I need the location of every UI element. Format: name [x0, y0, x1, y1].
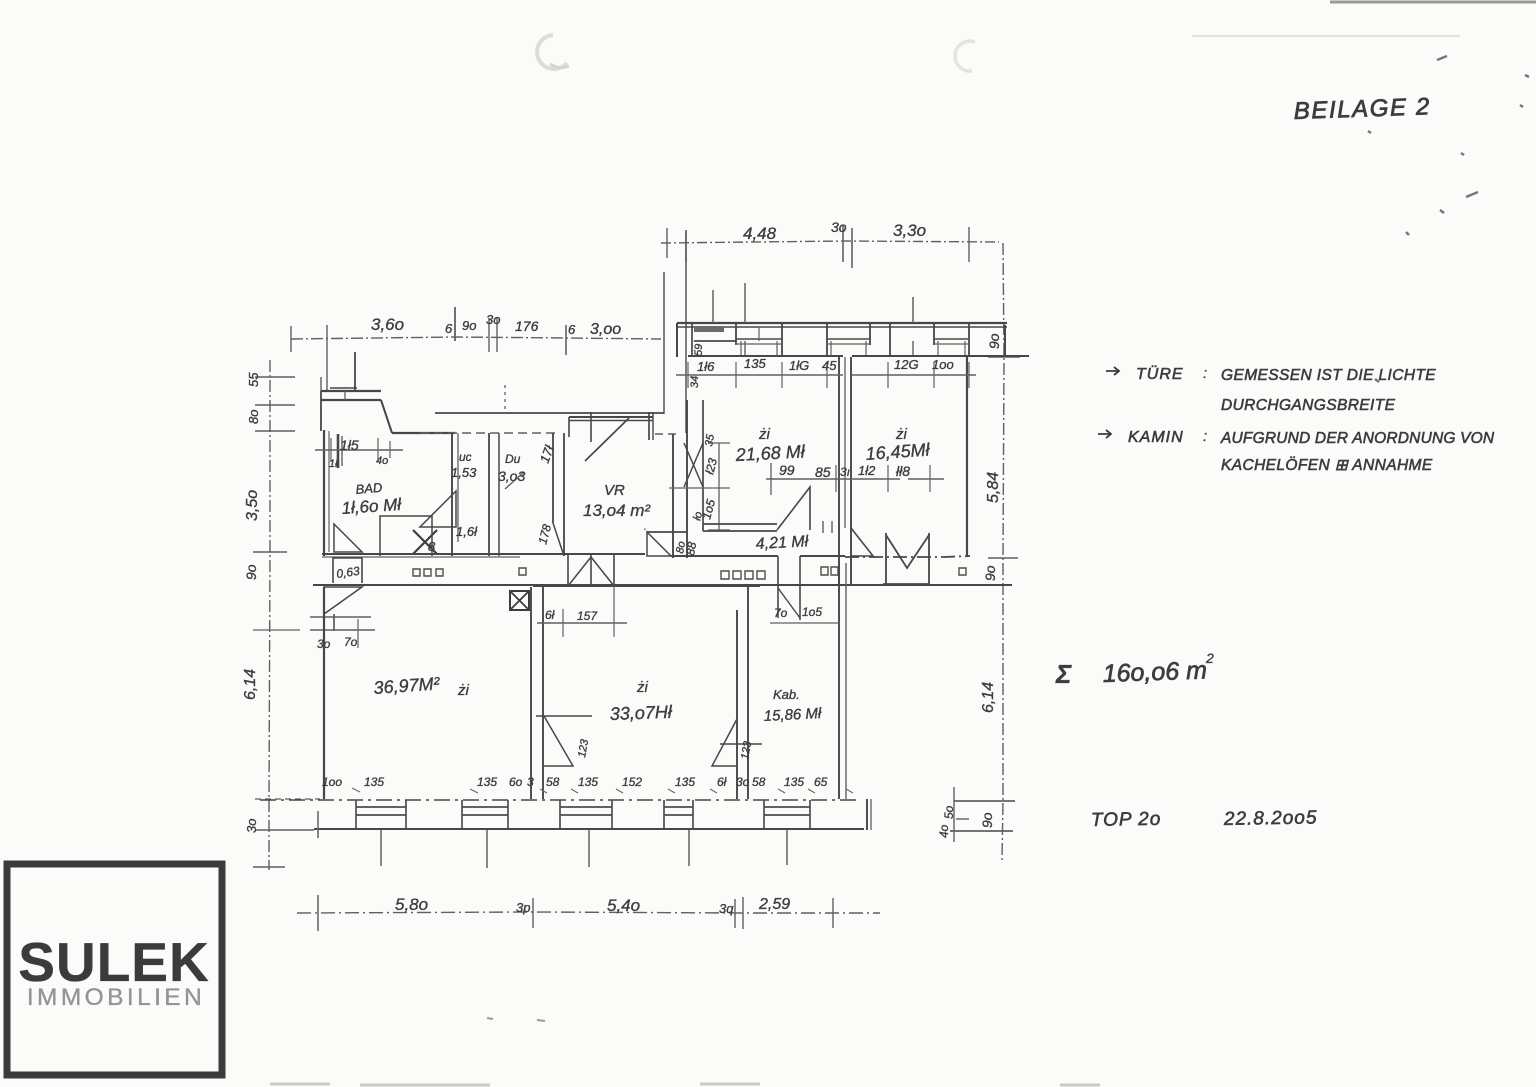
- svg-text:żi: żi: [758, 426, 771, 443]
- dim line under top wall windows: [676, 374, 843, 376]
- bottom dim line (5,80 / 30 / 5,40 / 39 / 2,59): [297, 912, 880, 913]
- specks top right corner: [1368, 56, 1529, 382]
- note arrow 2: [1098, 430, 1111, 438]
- svg-text:BEILAGE 2: BEILAGE 2: [1293, 93, 1431, 125]
- svg-text:1oo: 1oo: [322, 775, 342, 789]
- svg-text:59: 59: [693, 344, 705, 356]
- svg-text:IMMOBILIEN: IMMOBILIEN: [27, 984, 205, 1011]
- svg-text:135: 135: [578, 775, 598, 789]
- dim line upper-left (3,60 / 6 90 30 176 / 6 3,00): [291, 337, 661, 339]
- svg-text:3ı: 3ı: [840, 465, 850, 479]
- svg-text:5o: 5o: [942, 805, 956, 819]
- svg-text:7o: 7o: [344, 635, 358, 649]
- svg-text:AUFGRUND DER ANORDNUNG VON: AUFGRUND DER ANORDNUNG VON: [1220, 430, 1495, 447]
- svg-text:3q: 3q: [719, 901, 734, 916]
- svg-text:KAMIN: KAMIN: [1128, 429, 1184, 446]
- svg-text:157: 157: [577, 609, 598, 623]
- entrance door swing diagonal: [585, 418, 629, 461]
- svg-text:TÜRE: TÜRE: [1136, 365, 1184, 383]
- svg-text::: :: [1203, 428, 1207, 445]
- svg-text:Kab.: Kab.: [773, 687, 800, 702]
- svg-text:2: 2: [1205, 650, 1214, 666]
- svg-text:22.8.2oo5: 22.8.2oo5: [1223, 807, 1318, 830]
- svg-text:GEMESSEN IST DIE LICHTE: GEMESSEN IST DIE LICHTE: [1221, 367, 1436, 384]
- kamin X with 8 label near BAD: [413, 530, 437, 554]
- svg-text:8o: 8o: [674, 540, 688, 554]
- bottom edge scan smudges: [270, 1084, 1100, 1085]
- svg-text:3: 3: [527, 775, 534, 789]
- svg-text:4,21 Mł: 4,21 Mł: [755, 533, 809, 553]
- window mullion stubs in niches: [744, 341, 746, 356]
- BAD bath step rectangle: [380, 516, 432, 556]
- svg-text:3o: 3o: [736, 775, 750, 789]
- door corridor to Zi 21,68 swing: [777, 487, 810, 530]
- svg-text:1ł6: 1ł6: [697, 359, 715, 374]
- svg-text:1ł2: 1ł2: [858, 463, 876, 478]
- BAD door triangle: [420, 491, 456, 527]
- svg-text::: :: [1203, 365, 1207, 382]
- door corridor to Zi 16,45 swing: [851, 528, 873, 556]
- wall top exterior of Zi rooms (double): [677, 322, 1007, 324]
- svg-text:1o5: 1o5: [802, 605, 822, 619]
- scanner edge mark top right: [1330, 1, 1536, 4]
- bottom wall stubs below: [380, 830, 382, 866]
- inner dim row tick marks: [352, 788, 853, 793]
- window stubs above top wall: [744, 283, 746, 323]
- bottom window boxes: [356, 800, 406, 828]
- dashed overhead line above WC/DU/VR: [420, 432, 558, 434]
- wall BAD/WC divider: [451, 433, 453, 556]
- svg-text:135: 135: [364, 775, 384, 789]
- wall bottom lower rooms dashed: [260, 799, 856, 801]
- svg-text:3o: 3o: [831, 219, 847, 235]
- svg-text:Σ: Σ: [1055, 659, 1072, 689]
- svg-text:KACHELÖFEN ⊞ ANNAHME: KACHELÖFEN ⊞ ANNAHME: [1221, 456, 1433, 474]
- wall diagonal step top-left: [381, 400, 392, 433]
- svg-text:6: 6: [445, 321, 453, 336]
- svg-text:45: 45: [822, 358, 837, 373]
- right dim ticks: [988, 356, 1020, 358]
- svg-text:55: 55: [246, 372, 261, 387]
- svg-text:TOP 2o: TOP 2o: [1091, 809, 1162, 831]
- svg-text:3,3o: 3,3o: [893, 221, 926, 240]
- wall BAD top: [392, 432, 455, 434]
- niche 0,63 box: [333, 558, 362, 583]
- kamin box X symbol in 36,97: [510, 591, 529, 610]
- svg-text:Du: Du: [505, 452, 521, 466]
- svg-text:3,oo: 3,oo: [590, 321, 621, 338]
- svg-text:58: 58: [546, 775, 560, 789]
- punch hole right (faint arc): [955, 41, 975, 71]
- svg-text:1ł5: 1ł5: [340, 437, 359, 453]
- svg-text:9o: 9o: [979, 812, 995, 828]
- corridor 4,21 top wall (double): [703, 523, 777, 525]
- wall 33,07 / KAB (double): [736, 610, 738, 799]
- niche 0,63 door triangle above: [334, 524, 362, 552]
- svg-text:15,86 Mł: 15,86 Mł: [763, 705, 822, 725]
- dim line left vertical column: [269, 360, 270, 870]
- room 33,07 top wall: [533, 585, 760, 587]
- terrace edge line upper: [435, 412, 664, 414]
- small square in band single: [519, 568, 526, 575]
- svg-text:7o: 7o: [774, 606, 788, 620]
- top wall window dividers: [676, 323, 678, 357]
- door VR to Zi21,68 diagonal: [684, 443, 703, 487]
- small square in band right: [959, 568, 966, 575]
- top-right corner step: [1004, 325, 1006, 356]
- wall 36,97 / 33,07 (double): [530, 587, 532, 799]
- svg-text:VR: VR: [604, 482, 625, 499]
- row of small squares in band (3): [413, 569, 443, 576]
- svg-text:5,4o: 5,4o: [607, 896, 640, 915]
- svg-text:8o: 8o: [246, 410, 261, 424]
- svg-text:6o: 6o: [509, 775, 523, 789]
- wall KAB right (double): [838, 563, 840, 799]
- tick marks upper-left dim: [290, 326, 292, 352]
- wall DU/VR divider (double): [552, 433, 554, 523]
- svg-text:65: 65: [814, 775, 828, 789]
- svg-text:13,o4 m²: 13,o4 m²: [583, 501, 651, 520]
- corridor band lower line full: [313, 584, 1012, 586]
- wall Zi21,68 / Zi16,45 (double): [838, 357, 840, 585]
- wall top-left bay (double): [321, 390, 381, 392]
- svg-text:135: 135: [675, 775, 695, 789]
- svg-text:6ł: 6ł: [717, 775, 727, 789]
- svg-text:16o,o6 m: 16o,o6 m: [1102, 656, 1207, 688]
- window dim ticks: [687, 362, 689, 388]
- svg-text:33,o7Hł: 33,o7Hł: [609, 702, 673, 724]
- svg-text:6: 6: [568, 322, 576, 337]
- dim line right vertical column: [1002, 243, 1004, 860]
- svg-text:58: 58: [752, 775, 766, 789]
- wall right exterior (Zi 16,45): [966, 357, 968, 556]
- svg-text:4o: 4o: [937, 824, 951, 838]
- svg-text:1ł: 1ł: [329, 458, 338, 470]
- wall WC/DU divider (double): [488, 433, 490, 556]
- ticks inside rooms dim: [770, 463, 772, 495]
- wall left exterior lower (36,97): [323, 587, 325, 799]
- svg-text:85: 85: [815, 464, 831, 480]
- svg-text:1oo: 1oo: [932, 357, 954, 372]
- svg-text:176: 176: [515, 318, 539, 334]
- svg-text:DURCHGANGSBREITE: DURCHGANGSBREITE: [1221, 397, 1396, 414]
- svg-text:6,14: 6,14: [980, 682, 997, 713]
- door 33,07 left bottom swing: [544, 716, 573, 766]
- window niche lines top wall: [736, 338, 782, 340]
- note arrow 1: [1106, 367, 1119, 375]
- wall bay stub above: [354, 352, 356, 391]
- door KAB left bottom swing: [712, 719, 737, 766]
- svg-text:2,59: 2,59: [758, 896, 790, 913]
- dotted vertical on landing: [504, 385, 506, 412]
- svg-text:9o: 9o: [462, 318, 476, 333]
- svg-text:135: 135: [784, 775, 804, 789]
- door KAB top rectangle: [777, 556, 779, 618]
- svg-text:4,48: 4,48: [743, 224, 777, 243]
- svg-text:34: 34: [689, 376, 701, 388]
- corridor band upper line east: [671, 555, 778, 557]
- tick marks top dim: [666, 228, 668, 258]
- logo SULEK box border: [7, 864, 222, 1075]
- inner face of top wall: [688, 355, 843, 357]
- right bottom corner lines: [954, 800, 1015, 802]
- corridor band upper line west: [322, 553, 645, 555]
- hatched wall band top-left of Zi 21,68: [694, 326, 724, 332]
- bottom dim ticks: [317, 895, 319, 931]
- svg-text:12G: 12G: [894, 357, 919, 372]
- svg-text:żi: żi: [636, 679, 649, 696]
- svg-text:9o: 9o: [986, 333, 1002, 349]
- row of small squares in band (2): [821, 567, 838, 575]
- svg-text:uc: uc: [459, 450, 472, 464]
- svg-text:9o: 9o: [982, 565, 998, 581]
- door triangle below 0,63: [324, 587, 362, 614]
- svg-text:3p: 3p: [516, 900, 530, 915]
- interior dim line left of Zi 21,68: [718, 443, 720, 530]
- svg-text:4o: 4o: [376, 455, 388, 467]
- wall left exterior (BAD): [323, 430, 325, 556]
- wall VR right / Zi 21,68 left (double): [672, 434, 674, 558]
- bottom exterior solid line: [314, 828, 864, 830]
- dim line top (4,48 / 30 / 3,30): [661, 241, 999, 243]
- kamin M symbol Zi 16,45: [886, 533, 929, 584]
- radiator mark in BAD: [337, 434, 340, 468]
- svg-text:1,6ł: 1,6ł: [456, 524, 478, 539]
- left protrusion lines below: [323, 614, 325, 638]
- svg-text:łł8: łł8: [896, 463, 910, 479]
- svg-text:3,5o: 3,5o: [244, 490, 261, 521]
- svg-text:152: 152: [622, 775, 642, 789]
- door leaf dashes above band: [822, 521, 824, 533]
- left dim ticks: [255, 376, 295, 378]
- svg-text:99: 99: [779, 462, 795, 478]
- svg-text:135: 135: [477, 775, 497, 789]
- window reveal verticals in niches: [740, 341, 742, 356]
- wall bottom Zi 16,45 dash-dot: [845, 556, 970, 557]
- DU shower diagonal: [505, 472, 524, 489]
- connector verticals from top dim to plan: [685, 232, 687, 433]
- svg-text:21,68 Mł: 21,68 Mł: [734, 441, 806, 465]
- row of small squares in band (4): [721, 571, 765, 579]
- door to 33,07 chevron: [567, 555, 569, 586]
- svg-text:3o: 3o: [244, 819, 259, 833]
- svg-text:9o: 9o: [243, 564, 259, 580]
- door 36,97 top opening triangle: [647, 532, 671, 556]
- svg-text:3,o3: 3,o3: [498, 468, 525, 484]
- VR south-east corner wall: [647, 531, 687, 533]
- punch hole left (faint arc): [537, 35, 567, 69]
- entrance landing walls (double): [569, 416, 653, 418]
- svg-text:3,6o: 3,6o: [371, 315, 404, 334]
- svg-text:3o: 3o: [486, 312, 500, 327]
- svg-text:5,8o: 5,8o: [395, 895, 428, 914]
- svg-text:5,84: 5,84: [985, 472, 1002, 503]
- svg-text:1,53: 1,53: [451, 465, 477, 480]
- small protrusion left of BAD above: [344, 391, 346, 400]
- svg-text:6,14: 6,14: [242, 669, 259, 700]
- svg-text:BAD: BAD: [355, 480, 383, 497]
- dim 125 line in BAD top: [315, 449, 403, 451]
- dim line inside Zi 21,68 / Zi 16,45: [766, 478, 900, 480]
- svg-text:6ł: 6ł: [545, 608, 555, 622]
- svg-text:135: 135: [744, 356, 766, 371]
- svg-text:1łG: 1łG: [789, 358, 809, 373]
- svg-text:żi: żi: [457, 682, 470, 699]
- bottom right corner verticals: [866, 799, 868, 830]
